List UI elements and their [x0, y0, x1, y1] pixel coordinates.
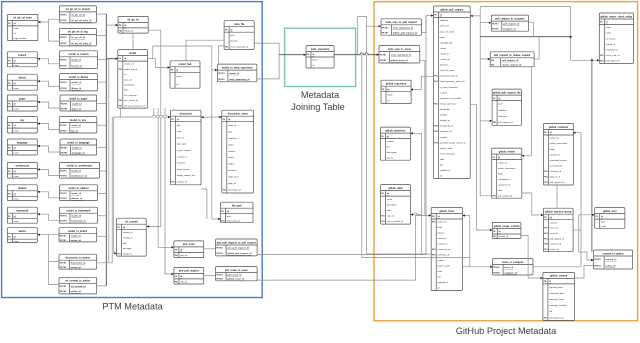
- svg-text:model_id: model_id: [72, 103, 82, 105]
- svg-text:FK1: FK1: [381, 216, 384, 218]
- arrow gitref_in: [116, 24, 118, 26]
- wire bus_to_model: [106, 58, 117, 60]
- arrow dataset_link_a: [37, 191, 39, 193]
- wire stub_193.4: [98, 192, 107, 194]
- table model_to_branch: [60, 51, 98, 69]
- svg-text:updated_at: updated_at: [438, 281, 449, 284]
- arrow meta_assoc_in: [215, 69, 217, 71]
- wire ia_right: [533, 266, 581, 268]
- svg-text:FK1: FK1: [434, 76, 437, 78]
- svg-text:meta_repository_id: meta_repository_id: [229, 78, 250, 81]
- table branch: [7, 52, 37, 67]
- svg-text:PK,FK2: PK,FK2: [216, 253, 222, 255]
- svg-text:PK,FK1: PK,FK1: [61, 103, 67, 105]
- arrow mlcommit_in: [147, 225, 149, 227]
- svg-text:ml_git_ref_entry: ml_git_ref_entry: [13, 17, 32, 20]
- arrow commit_in2: [541, 277, 543, 279]
- wire key_link: [37, 124, 59, 130]
- svg-text:architecture: architecture: [15, 165, 29, 168]
- wire mri_right: [420, 60, 425, 215]
- svg-text:FK2: FK2: [432, 249, 435, 251]
- svg-text:number: number: [438, 259, 445, 262]
- svg-text:FK1: FK1: [600, 55, 603, 57]
- svg-text:model_id: model_id: [71, 60, 81, 62]
- svg-text:color: color: [387, 209, 392, 212]
- svg-text:FK4: FK4: [434, 125, 437, 128]
- wire pr_top_loop: [480, 7, 599, 61]
- wire devent_fp: [201, 189, 207, 219]
- svg-text:content: content: [228, 150, 235, 153]
- svg-text:additions: additions: [440, 19, 448, 22]
- svg-text:discussion_to_author: discussion_to_author: [65, 257, 90, 260]
- table meta_file: [224, 21, 254, 50]
- svg-text:FK3: FK3: [119, 105, 122, 107]
- table model: [118, 50, 148, 109]
- svg-text:number: number: [387, 140, 394, 143]
- svg-text:pull_request_id: pull_request_id: [550, 181, 565, 184]
- svg-text:branch: branch: [18, 54, 27, 57]
- svg-text:PK,FK2: PK,FK2: [492, 29, 498, 31]
- svg-text:issue_to_assignee: issue_to_assignee: [502, 261, 524, 264]
- svg-text:name: name: [606, 27, 612, 29]
- svg-text:name: name: [14, 153, 20, 155]
- svg-text:committed_date: committed_date: [549, 292, 565, 295]
- wire gitref_entry_split: [38, 19, 59, 41]
- svg-text:language: language: [17, 141, 28, 144]
- svg-text:github_issue: github_issue: [439, 210, 454, 213]
- wire model_ptmissue: [158, 108, 174, 247]
- table ml_git_ref: [118, 16, 148, 33]
- svg-text:github_repository: github_repository: [386, 83, 407, 86]
- svg-text:is_draft: is_draft: [440, 91, 447, 94]
- svg-text:name: name: [14, 176, 20, 178]
- svg-text:context_id: context_id: [124, 63, 134, 66]
- svg-text:repo_id: repo_id: [387, 215, 395, 218]
- svg-text:model_to_branch: model_to_branch: [69, 53, 89, 56]
- arrow ia_in: [490, 266, 492, 268]
- wire stub_82.1: [97, 81, 106, 83]
- svg-text:closed: closed: [438, 233, 445, 235]
- svg-text:FK2: FK2: [381, 221, 384, 223]
- arrow cta_in: [591, 259, 593, 261]
- svg-text:model: model: [129, 52, 136, 55]
- svg-text:repo_id: repo_id: [180, 280, 188, 283]
- svg-text:github_status_check_rollup: github_status_check_rollup: [601, 15, 633, 18]
- wire jump arc label link: [414, 213, 418, 215]
- table ml_git_ref_entry: [7, 14, 38, 40]
- svg-text:model_to_library: model_to_library: [69, 76, 89, 79]
- wire ptmissue_assoc: [204, 248, 216, 250]
- svg-text:github_merge_commit: github_merge_commit: [494, 225, 520, 228]
- svg-text:name: name: [387, 199, 393, 201]
- svg-text:model_hub_id: model_hub_id: [124, 69, 138, 71]
- svg-text:FK1: FK1: [544, 171, 547, 173]
- wire disc_event_in: [212, 116, 222, 118]
- table language: [7, 139, 37, 155]
- svg-text:milestone_id: milestone_id: [440, 130, 453, 133]
- table github_comment: [544, 124, 574, 186]
- svg-text:is_minimized: is_minimized: [550, 166, 563, 168]
- wire repo_pr: [411, 76, 434, 89]
- svg-text:closed_at: closed_at: [440, 53, 449, 56]
- svg-text:hidden: hidden: [228, 164, 235, 166]
- wire metafile_hub: [186, 40, 224, 61]
- arrow language_link_a: [37, 145, 39, 147]
- svg-text:name: name: [176, 76, 182, 78]
- wire jump arcs metarepo line: [360, 53, 364, 55]
- table ptm_pull_request_to_pull_request: [216, 239, 258, 256]
- svg-text:FK1: FK1: [491, 60, 494, 62]
- table ml_git_ref_to_tag: [59, 28, 96, 46]
- table meta_repository: [306, 46, 334, 69]
- wire model_stub153: [153, 108, 155, 117]
- wire framework_link: [37, 214, 59, 220]
- svg-text:PTM Metadata: PTM Metadata: [102, 301, 163, 311]
- svg-text:discussion: discussion: [180, 113, 193, 116]
- arrow ptmpr_in: [172, 273, 174, 275]
- svg-text:author_id: author_id: [71, 290, 82, 293]
- svg-text:discussion_event: discussion_event: [228, 113, 248, 116]
- svg-text:github_pull_request_id: github_pull_request_id: [393, 32, 418, 35]
- svg-text:head_repository_id: head_repository_id: [440, 75, 459, 78]
- svg-text:model_id: model_id: [71, 82, 81, 84]
- svg-text:FK3: FK3: [432, 255, 435, 257]
- wire metarepo_right: [334, 54, 379, 56]
- arrow metarepo_in: [304, 54, 306, 56]
- arrow disc_r_in: [201, 116, 203, 118]
- svg-text:FK1: FK1: [432, 222, 435, 224]
- table issue_to_assignee: [493, 259, 533, 276]
- svg-text:file_path: file_path: [232, 205, 242, 208]
- svg-text:meta_repository_id: meta_repository_id: [393, 26, 414, 29]
- svg-text:model_to_paper: model_to_paper: [69, 97, 88, 100]
- svg-text:FK1: FK1: [493, 236, 496, 238]
- svg-text:model_id: model_id: [124, 30, 133, 32]
- svg-text:created_at: created_at: [123, 237, 133, 240]
- arrow key_link_a: [37, 122, 39, 124]
- arrow framework_link_a: [37, 213, 39, 215]
- arrow library_link_a: [37, 80, 39, 82]
- wire stub_215.8: [98, 215, 107, 217]
- svg-text:pull_request_to_review_request: pull_request_to_review_request: [494, 54, 531, 57]
- svg-text:model_id: model_id: [71, 216, 81, 218]
- svg-text:FK1: FK1: [119, 30, 122, 32]
- wire stub_171.0: [100, 170, 107, 172]
- wire paper_link: [37, 102, 59, 108]
- svg-text:author: author: [19, 230, 27, 233]
- wire dataset_link: [37, 192, 59, 198]
- wire mergec_feed: [470, 104, 492, 230]
- svg-text:comment_url: comment_url: [498, 183, 511, 186]
- svg-text:PK,FK2: PK,FK2: [382, 33, 388, 35]
- svg-text:base_ref_name: base_ref_name: [440, 30, 455, 33]
- svg-text:architecture_id: architecture_id: [71, 175, 87, 178]
- arrow prev_in: [522, 155, 524, 157]
- wire model_bus2: [108, 59, 110, 262]
- svg-text:PK,FK2: PK,FK2: [594, 266, 600, 268]
- svg-text:FK1: FK1: [175, 255, 178, 257]
- svg-text:project_cards: project_cards: [438, 265, 450, 268]
- svg-text:model_id: model_id: [71, 171, 81, 173]
- svg-text:PK,FK2: PK,FK2: [60, 88, 66, 90]
- svg-text:ptm_pull_request_to_pull_reque: ptm_pull_request_to_pull_request: [217, 241, 256, 244]
- svg-text:pull_request_to_assignee: pull_request_to_assignee: [495, 17, 525, 20]
- arrow mrpr_in: [379, 25, 381, 27]
- wire rr_review: [522, 67, 532, 156]
- svg-text:revision: revision: [230, 40, 238, 43]
- svg-text:name: name: [14, 198, 20, 200]
- table github_reaction_group: [544, 208, 574, 252]
- svg-text:model_id: model_id: [72, 147, 82, 149]
- svg-text:created_at: created_at: [177, 155, 187, 158]
- table pull_request_to_review_request: [490, 52, 534, 67]
- svg-text:PK,FK2: PK,FK2: [60, 221, 66, 223]
- svg-text:ml_git_ref: ml_git_ref: [127, 19, 139, 22]
- svg-text:author_id: author_id: [440, 25, 450, 28]
- table framework: [7, 207, 37, 223]
- svg-text:discussion_id: discussion_id: [71, 262, 86, 264]
- table author: [7, 228, 37, 243]
- wire pr_right_1: [470, 7, 491, 60]
- svg-text:assignee_id: assignee_id: [503, 29, 516, 31]
- table model_hub: [170, 61, 200, 88]
- svg-text:ml_git_ref_to_tag: ml_git_ref_to_tag: [68, 31, 88, 34]
- svg-text:large_content: large_content: [14, 37, 27, 40]
- wire label_link: [411, 214, 422, 216]
- table file_path: [221, 202, 253, 223]
- svg-text:merged: merged: [440, 114, 448, 117]
- svg-text:ml_git_ref_id: ml_git_ref_id: [71, 36, 85, 39]
- svg-text:github_user: github_user: [603, 210, 617, 213]
- svg-text:key: key: [20, 119, 25, 122]
- table library: [7, 74, 37, 90]
- wire metarepo_feed: [279, 54, 306, 56]
- table github_pull_request_file: [492, 89, 521, 125]
- svg-text:framework_id: framework_id: [71, 221, 86, 223]
- svg-text:key_id: key_id: [71, 130, 78, 132]
- svg-text:closed: closed: [440, 48, 447, 50]
- arrow filepath_in: [218, 218, 220, 220]
- svg-text:due_at: due_at: [387, 156, 394, 159]
- svg-text:discussion_id: discussion_id: [227, 220, 240, 222]
- wire library_link: [37, 81, 59, 86]
- wire user_feed: [579, 214, 595, 216]
- svg-text:created_at: created_at: [440, 58, 450, 61]
- wire gitref_model: [132, 33, 134, 49]
- svg-text:check_suite_id: check_suite_id: [606, 54, 621, 57]
- wire stub_103.6: [97, 103, 107, 105]
- svg-text:FK5: FK5: [544, 249, 547, 251]
- svg-text:author_id: author_id: [71, 266, 82, 269]
- svg-text:dataset: dataset: [18, 187, 27, 190]
- svg-text:content: content: [550, 221, 557, 224]
- svg-text:PK,FK1: PK,FK1: [60, 262, 66, 264]
- svg-text:merge_commit_id: merge_commit_id: [440, 103, 457, 106]
- arrow prf_in: [490, 120, 492, 122]
- arrow model_in: [115, 58, 117, 60]
- svg-text:model_to_language: model_to_language: [67, 141, 90, 144]
- wire sec_v: [578, 215, 580, 252]
- svg-text:FK1: FK1: [544, 317, 547, 319]
- svg-text:authored_date: authored_date: [549, 286, 563, 289]
- wire repo_issue: [362, 55, 470, 267]
- svg-text:submitted_at: submitted_at: [498, 178, 510, 181]
- wire milestone_issue: [411, 133, 432, 254]
- svg-text:PK,FK1: PK,FK1: [60, 171, 66, 173]
- wire stub_147.6: [97, 147, 107, 149]
- svg-text:assignee_id: assignee_id: [504, 272, 517, 274]
- arrow pr_r_in: [470, 15, 472, 17]
- svg-text:PK,FK1: PK,FK1: [216, 248, 222, 250]
- table discussion_event: [222, 110, 254, 193]
- svg-text:changed_files: changed_files: [440, 42, 453, 44]
- svg-text:FK1: FK1: [171, 182, 174, 184]
- svg-text:merge_commit_sha: merge_commit_sha: [177, 174, 196, 177]
- svg-text:FK6: FK6: [434, 142, 437, 144]
- svg-text:ml_commit_id: ml_commit_id: [71, 285, 86, 288]
- wire prr_right: [534, 37, 539, 59]
- svg-text:author_association: author_association: [498, 167, 516, 170]
- svg-text:reactions_id: reactions_id: [550, 170, 562, 173]
- svg-text:dataset_id: dataset_id: [71, 197, 82, 200]
- svg-text:PK,FK1: PK,FK1: [382, 27, 388, 29]
- junction diamonds: [569, 35, 572, 38]
- svg-text:FK2: FK2: [434, 81, 437, 83]
- wire review_reaction: [522, 193, 544, 215]
- svg-text:downloads: downloads: [124, 85, 134, 87]
- table github_merge_commit: [492, 223, 521, 239]
- svg-text:FK1: FK1: [493, 195, 496, 197]
- wire commit_author: [574, 266, 593, 279]
- svg-text:PK,FK1: PK,FK1: [60, 286, 66, 288]
- svg-text:name: name: [14, 65, 20, 67]
- svg-text:PK,FK2: PK,FK2: [60, 176, 66, 178]
- svg-text:model_id: model_id: [123, 253, 132, 255]
- arrow hub_in: [168, 66, 170, 68]
- svg-text:name: name: [14, 221, 20, 223]
- svg-text:head_ref_name: head_ref_name: [440, 69, 455, 72]
- svg-text:name: name: [14, 28, 20, 30]
- svg-text:PK,FK1: PK,FK1: [60, 125, 66, 127]
- svg-text:pull_request_id: pull_request_id: [498, 121, 513, 124]
- svg-text:PK,FK2: PK,FK2: [60, 240, 66, 242]
- svg-text:head_repository_owner_id: head_repository_owner_id: [440, 80, 465, 83]
- svg-text:maintainer_can_modify: maintainer_can_modify: [440, 97, 462, 100]
- svg-text:meta_repo_to_pull_request: meta_repo_to_pull_request: [386, 21, 417, 24]
- table ptm_issue_to_issue: [216, 267, 258, 281]
- svg-text:FK2: FK2: [119, 100, 122, 102]
- table meta_repo_to_issue: [379, 46, 420, 63]
- wire stub_236.3: [97, 235, 107, 237]
- table model_to_language: [60, 139, 97, 155]
- svg-text:repo_id: repo_id: [177, 136, 185, 139]
- wire stub_35.5: [96, 35, 106, 37]
- svg-text:GitHub Project Metadata: GitHub Project Metadata: [456, 326, 557, 336]
- svg-text:PK,FK2: PK,FK2: [60, 20, 66, 22]
- wire reaction_right: [573, 229, 581, 231]
- svg-text:site_post_structure_id: site_post_structure_id: [124, 104, 145, 107]
- wire stub_125.2: [97, 124, 107, 126]
- arrow reaction_in: [541, 214, 543, 216]
- svg-text:ptm_pull_request_id: ptm_pull_request_id: [227, 247, 249, 250]
- svg-text:paper: paper: [19, 97, 26, 100]
- wire stub_285.9: [97, 285, 107, 287]
- svg-text:PK,FK2: PK,FK2: [60, 66, 66, 68]
- svg-text:FK1: FK1: [225, 46, 228, 48]
- svg-text:repo_id: repo_id: [180, 254, 188, 257]
- table ml_git_ref_to_branch: [59, 6, 96, 23]
- svg-text:has_structure: has_structure: [124, 94, 137, 97]
- svg-text:pull_request_id: pull_request_id: [503, 23, 520, 26]
- table github_repository: [381, 80, 411, 103]
- svg-text:name: name: [14, 88, 20, 90]
- wire pr_user: [480, 37, 592, 252]
- wire discussion_event_link: [201, 116, 212, 118]
- svg-text:github_commit: github_commit: [550, 275, 567, 278]
- svg-text:meta_repository: meta_repository: [311, 48, 330, 51]
- svg-text:FK2: FK2: [491, 65, 494, 67]
- svg-text:github_comment: github_comment: [549, 126, 568, 129]
- svg-text:ml_git_ref_id: ml_git_ref_id: [71, 14, 85, 17]
- svg-text:likes: likes: [124, 90, 128, 92]
- wire metarepo_branch: [358, 16, 422, 254]
- arrow ptmissue_in: [172, 246, 174, 248]
- arrow issue_r_in: [463, 214, 465, 216]
- svg-text:PK,FK2: PK,FK2: [61, 108, 67, 110]
- svg-text:PK,FK1: PK,FK1: [60, 193, 66, 195]
- arrow scr_in: [597, 59, 599, 61]
- wire pr_right_4: [480, 59, 491, 196]
- arrow architecture_link_a: [37, 168, 39, 170]
- svg-text:model_to_architecture: model_to_architecture: [67, 165, 93, 168]
- svg-text:model_id: model_id: [229, 73, 239, 75]
- table github_milestone: [380, 127, 410, 160]
- wire cross_issue: [257, 216, 431, 281]
- svg-text:number: number: [440, 136, 447, 139]
- svg-text:FK2: FK2: [544, 233, 547, 235]
- svg-text:message: message: [123, 248, 132, 250]
- svg-text:Joining Table: Joining Table: [291, 102, 344, 112]
- arrow prr_in: [488, 58, 490, 60]
- wire comment_feed: [573, 133, 581, 267]
- svg-text:PK,FK2: PK,FK2: [60, 130, 66, 132]
- svg-text:pull_request_id: pull_request_id: [502, 59, 519, 62]
- svg-text:PK,FK1: PK,FK1: [61, 147, 67, 149]
- wire stub_14.0: [96, 13, 106, 15]
- svg-text:author_id: author_id: [71, 239, 82, 242]
- svg-text:paper_id: paper_id: [72, 108, 82, 110]
- arrow dev_in: [219, 116, 221, 118]
- svg-text:FK1: FK1: [175, 281, 178, 283]
- svg-text:ptm_issue_id: ptm_issue_id: [227, 274, 242, 277]
- table architecture: [7, 162, 37, 178]
- table ptm_pull_request: [174, 267, 204, 284]
- svg-text:PK,FK1: PK,FK1: [60, 82, 66, 84]
- svg-text:FK4: FK4: [544, 243, 547, 246]
- svg-text:FK1: FK1: [544, 228, 547, 230]
- svg-text:name: name: [387, 95, 393, 97]
- table github_issue: [431, 208, 462, 291]
- arrow mri_in: [377, 54, 379, 56]
- svg-text:email: email: [601, 226, 607, 228]
- wire architecture_link: [37, 169, 59, 175]
- svg-text:PK,FK1: PK,FK1: [60, 15, 66, 17]
- svg-text:updated_at: updated_at: [440, 169, 451, 172]
- svg-text:FK2: FK2: [544, 177, 547, 179]
- svg-text:author: author: [228, 143, 234, 146]
- table model_to_author: [59, 228, 97, 242]
- table ptm_issue: [174, 241, 204, 258]
